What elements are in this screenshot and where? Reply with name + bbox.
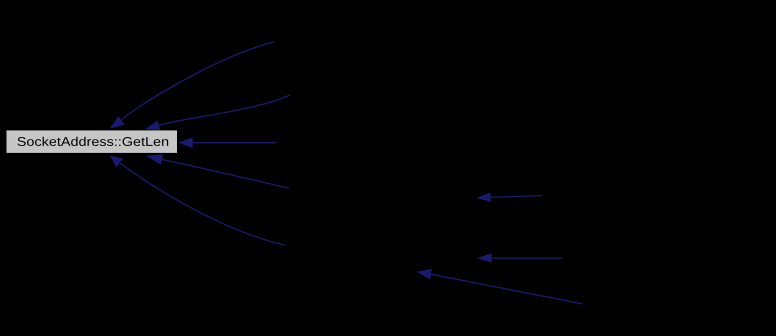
edge caller-6 xyxy=(491,196,542,198)
node SocketAddress::GetLen xyxy=(7,130,178,153)
edge caller-7 xyxy=(492,257,562,259)
edge caller-4 -> GetLen xyxy=(162,160,289,189)
edge caller-1 -> GetLen xyxy=(121,42,274,121)
edge caller-8 xyxy=(431,274,583,304)
edge caller-3 -> GetLen xyxy=(193,142,276,144)
edge caller-5 -> GetLen xyxy=(120,163,285,245)
edge caller-2 -> GetLen xyxy=(159,95,290,125)
